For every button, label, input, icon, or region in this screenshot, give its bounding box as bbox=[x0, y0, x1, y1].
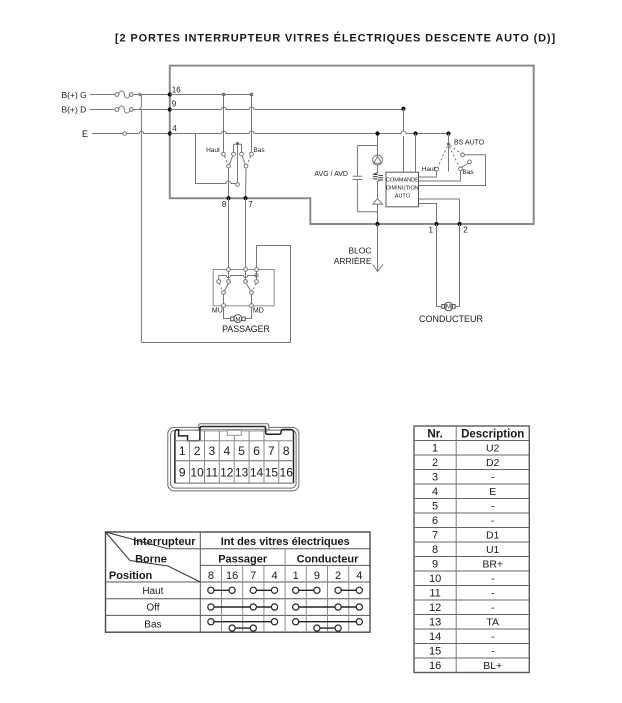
svg-text:Passager: Passager bbox=[218, 553, 268, 565]
svg-text:7: 7 bbox=[432, 530, 438, 542]
svg-text:-: - bbox=[491, 515, 495, 527]
passenger switch contact circles bbox=[222, 152, 254, 168]
switch table row border Off/Bas bbox=[106, 614, 371, 616]
wire Bas fixed drop bbox=[251, 95, 253, 153]
svg-text:Interrupteur: Interrupteur bbox=[133, 536, 196, 548]
svg-text:9: 9 bbox=[172, 100, 177, 109]
pole terminal circle bbox=[236, 183, 240, 187]
passenger switch pole bbox=[237, 145, 239, 182]
svg-text:16: 16 bbox=[429, 660, 441, 672]
passenger motor M bbox=[231, 315, 246, 323]
svg-text:Bas: Bas bbox=[253, 147, 265, 154]
wire B(+)D to breaker bbox=[90, 109, 116, 111]
svg-text:MU: MU bbox=[212, 307, 223, 314]
BS AUTO pivot bbox=[447, 143, 450, 146]
svg-text:5: 5 bbox=[238, 444, 245, 458]
svg-text:[2 PORTES INTERRUPTEUR VITRES: [2 PORTES INTERRUPTEUR VITRES ÉLECTRIQUE… bbox=[115, 32, 556, 45]
svg-text:2: 2 bbox=[432, 457, 438, 469]
svg-text:9: 9 bbox=[314, 570, 320, 582]
svg-text:AUTO: AUTO bbox=[395, 194, 411, 200]
svg-text:B(+) G: B(+) G bbox=[62, 90, 87, 100]
passenger switch dashed link right bbox=[247, 156, 250, 164]
svg-text:14: 14 bbox=[250, 465, 264, 479]
switch table row border A bbox=[168, 548, 370, 550]
svg-text:M: M bbox=[235, 317, 240, 323]
svg-text:15: 15 bbox=[265, 465, 279, 479]
MD terminal circle bbox=[250, 304, 254, 308]
switch table column lines bbox=[222, 549, 349, 632]
circuit breaker CB2 (B+D) bbox=[115, 106, 133, 113]
svg-text:16: 16 bbox=[280, 465, 294, 479]
svg-text:MD: MD bbox=[253, 307, 264, 314]
node commande E junction bbox=[413, 131, 417, 135]
wire Haut fixed drop bbox=[223, 95, 225, 153]
connector keyed top contour bbox=[175, 427, 294, 484]
svg-text:Bas: Bas bbox=[462, 169, 474, 176]
wire commande out 1 bbox=[419, 204, 437, 225]
header diagonal 1 bbox=[106, 532, 169, 549]
svg-text:3: 3 bbox=[432, 472, 438, 484]
svg-text:U1: U1 bbox=[486, 544, 500, 556]
connector tab inner lines bbox=[200, 429, 268, 431]
node pin1 dot bbox=[434, 222, 438, 226]
switch assembly box outline bbox=[170, 66, 534, 224]
passenger switch dashed link left bbox=[225, 156, 228, 164]
node rail dot Bas drop bbox=[250, 93, 254, 97]
wire t3 down bbox=[256, 271, 258, 280]
svg-text:Nr.: Nr. bbox=[427, 428, 442, 440]
switch table row border C bbox=[106, 581, 371, 583]
svg-text:BS AUTO: BS AUTO bbox=[454, 140, 485, 147]
svg-text:16: 16 bbox=[226, 570, 238, 582]
svg-text:8: 8 bbox=[283, 444, 290, 458]
connector grid bottom bbox=[175, 482, 294, 484]
wire pin9 drop to commande box with hop over pin4 rail bbox=[403, 109, 405, 173]
switch table outer border bbox=[106, 532, 371, 632]
nr table numbers bbox=[429, 443, 441, 673]
BS AUTO solid arm Bas bbox=[461, 163, 468, 167]
off row contact bridges bbox=[208, 604, 363, 610]
bus junction circle bbox=[255, 274, 258, 277]
svg-text:6: 6 bbox=[253, 444, 260, 458]
svg-text:DIMINUTION: DIMINUTION bbox=[386, 186, 419, 192]
diode symbol bbox=[373, 199, 383, 205]
block moving contact circles bbox=[222, 291, 254, 295]
wire Haut contact to commande bbox=[419, 171, 437, 177]
node junction B+ tie (grey dot) bbox=[138, 93, 142, 97]
svg-text:8: 8 bbox=[222, 200, 227, 209]
svg-text:Haut: Haut bbox=[142, 586, 163, 597]
svg-text:Borne: Borne bbox=[135, 553, 167, 565]
wire MD to motor bbox=[245, 308, 251, 319]
BS AUTO contact circles bbox=[435, 153, 472, 171]
svg-text:D1: D1 bbox=[486, 530, 500, 542]
connector pin numbers row 1 bbox=[179, 444, 290, 458]
connector terminal circle on E bbox=[123, 132, 127, 136]
ground bus inside block with hops bbox=[219, 276, 257, 280]
node BS AUTO junction on pin4 rail bbox=[446, 131, 450, 135]
BS AUTO frame to commande bbox=[419, 155, 486, 186]
wire Bas contact to commande bbox=[419, 171, 461, 181]
svg-text:16: 16 bbox=[172, 86, 181, 95]
svg-text:BL+: BL+ bbox=[483, 660, 502, 672]
connector latch slot bbox=[227, 430, 241, 435]
svg-text:BLOC: BLOC bbox=[348, 246, 371, 256]
nr table row lines bbox=[414, 441, 529, 659]
node pin2 dot bbox=[457, 222, 461, 226]
wire pin8 down to passenger motor bbox=[228, 198, 230, 269]
svg-text:8: 8 bbox=[208, 570, 214, 582]
svg-text:2: 2 bbox=[335, 570, 341, 582]
svg-text:7: 7 bbox=[268, 444, 275, 458]
wire zigzag to diode bbox=[377, 182, 379, 199]
wire B+ vertical merge into B(+)D line bbox=[137, 95, 141, 110]
svg-text:AVG / AVD: AVG / AVD bbox=[314, 171, 348, 178]
svg-text:B(+) D: B(+) D bbox=[62, 105, 87, 115]
wire breaker to pin9 bbox=[133, 109, 170, 111]
wire pin7 down to passenger motor bbox=[245, 198, 247, 269]
svg-text:M: M bbox=[446, 305, 451, 311]
wire commande out 2 bbox=[419, 199, 460, 224]
wire pin16 rail bbox=[170, 94, 252, 96]
connector grid top line bbox=[175, 440, 294, 442]
MU terminal circle bbox=[222, 304, 226, 308]
node AVG junction on pin4 rail bbox=[375, 131, 379, 135]
BS AUTO dashed arm to lower Bas bbox=[449, 147, 459, 167]
svg-text:TA: TA bbox=[486, 617, 499, 629]
wire moving right to MD bbox=[251, 294, 253, 303]
passenger switch T-bar and legs bbox=[234, 144, 242, 152]
svg-text:6: 6 bbox=[432, 515, 438, 527]
wire bloc arriere drop bbox=[377, 224, 379, 271]
wire E lead bbox=[92, 133, 123, 135]
switch table row border Haut/Off bbox=[106, 598, 371, 600]
svg-text:12: 12 bbox=[429, 602, 441, 614]
passenger switch pivot bbox=[236, 142, 239, 145]
connector tab cell dividers bbox=[205, 431, 265, 441]
header diagonal 2 bbox=[106, 532, 201, 582]
svg-text:E: E bbox=[82, 129, 88, 139]
AVG parallel capacitor branch bbox=[356, 146, 358, 212]
svg-text:-: - bbox=[491, 501, 495, 513]
svg-text:-: - bbox=[491, 631, 495, 643]
svg-text:11: 11 bbox=[206, 465, 219, 479]
svg-text:10: 10 bbox=[190, 465, 204, 479]
svg-text:-: - bbox=[491, 646, 495, 658]
wire t2 down bbox=[245, 271, 247, 280]
svg-text:-: - bbox=[491, 472, 495, 484]
node pin8 dot bbox=[226, 196, 230, 200]
BS AUTO dashed arm to upper Bas bbox=[450, 145, 461, 153]
svg-text:9: 9 bbox=[432, 559, 438, 571]
wire pin9 rail with hops bbox=[170, 107, 404, 110]
node pin4 dot bbox=[168, 131, 172, 135]
block arm left bbox=[225, 284, 229, 291]
svg-text:5: 5 bbox=[432, 501, 438, 513]
svg-text:7: 7 bbox=[248, 200, 253, 209]
BS AUTO pole bbox=[448, 146, 450, 172]
svg-text:13: 13 bbox=[429, 617, 441, 629]
block fixed contact circles bbox=[217, 280, 259, 284]
commande diminution auto box U1 bbox=[386, 172, 419, 207]
passenger switch arm left bbox=[230, 156, 233, 165]
wire pin2 to conducteur motor bbox=[455, 224, 459, 307]
haut row contact bridges bbox=[208, 587, 363, 593]
svg-text:4: 4 bbox=[271, 570, 277, 582]
svg-text:COMMANDE: COMMANDE bbox=[386, 178, 419, 184]
wire diode to bottom rail bbox=[377, 204, 379, 224]
thermal protector circle with triangle bbox=[373, 155, 383, 165]
block arm right bbox=[247, 284, 251, 291]
wire E drop to commande box bbox=[415, 134, 417, 173]
svg-text:13: 13 bbox=[235, 465, 249, 479]
node pin7 dot bbox=[243, 196, 247, 200]
zigzag element bbox=[373, 173, 383, 182]
node rail dot Haut drop bbox=[222, 93, 226, 97]
wire E to pin4 with hop over B+ vertical bbox=[127, 131, 170, 133]
svg-text:7: 7 bbox=[250, 570, 256, 582]
connector grid row divider bbox=[175, 460, 294, 462]
node pin9 end dot bbox=[401, 107, 405, 111]
wire B+ feed down left side bbox=[140, 110, 142, 343]
svg-text:8: 8 bbox=[432, 544, 438, 556]
BS AUTO dashed arm to Haut bbox=[438, 146, 448, 167]
connector tab outer bbox=[199, 424, 269, 431]
svg-text:11: 11 bbox=[429, 588, 440, 600]
svg-text:15: 15 bbox=[429, 646, 441, 658]
block dashed link left bbox=[220, 284, 223, 291]
svg-text:Haut: Haut bbox=[206, 147, 220, 154]
block dashed link right bbox=[253, 284, 256, 291]
svg-text:D2: D2 bbox=[486, 457, 500, 469]
wire moving contact left to pin8 bbox=[228, 168, 230, 198]
node AVG bottom dot bbox=[375, 222, 379, 226]
commande text bbox=[386, 178, 419, 200]
node pin9 dot bbox=[168, 107, 172, 111]
passenger motor block outline bbox=[213, 270, 274, 306]
wire between circle and zigzag bbox=[377, 165, 379, 173]
svg-text:4: 4 bbox=[356, 570, 362, 582]
svg-text:CONDUCTEUR: CONDUCTEUR bbox=[419, 314, 483, 324]
svg-text:2: 2 bbox=[194, 444, 201, 458]
circuit breaker CB1 (B+G) bbox=[115, 91, 133, 98]
node pin16 dot bbox=[168, 92, 172, 96]
wire pin4 rail with hops bbox=[170, 131, 449, 134]
passenger switch arm right bbox=[242, 156, 245, 165]
svg-text:-: - bbox=[491, 573, 495, 585]
svg-text:BR+: BR+ bbox=[482, 559, 503, 571]
wire pin4 to BS pivot bbox=[448, 134, 450, 143]
svg-text:Haut: Haut bbox=[422, 166, 436, 173]
wire AVG branch vertical top bbox=[377, 134, 379, 156]
svg-text:-: - bbox=[491, 588, 495, 600]
wire E feed to pole with hop bbox=[196, 134, 236, 184]
svg-text:1: 1 bbox=[293, 570, 299, 582]
svg-text:10: 10 bbox=[429, 573, 441, 585]
svg-text:E: E bbox=[489, 486, 496, 498]
capacitor plates bbox=[353, 176, 362, 179]
connector shell outer bbox=[168, 427, 299, 491]
wire pin1 to conducteur motor bbox=[437, 224, 442, 307]
wire t1 down bbox=[228, 271, 230, 280]
svg-text:1: 1 bbox=[432, 443, 438, 455]
nr table outer border bbox=[414, 426, 529, 673]
svg-text:ARRIÈRE: ARRIÈRE bbox=[334, 256, 372, 266]
svg-text:2: 2 bbox=[463, 225, 468, 234]
AVG branch connectors bbox=[357, 146, 377, 212]
switch table row border B bbox=[200, 564, 370, 566]
svg-text:Off: Off bbox=[146, 603, 159, 614]
connector shell inner bbox=[171, 430, 297, 488]
borne numbers bbox=[208, 570, 363, 582]
svg-text:Bas: Bas bbox=[144, 619, 161, 630]
svg-text:Position: Position bbox=[109, 570, 153, 582]
wire moving left to MU bbox=[223, 294, 225, 303]
wire B(+)G to breaker bbox=[90, 94, 116, 96]
svg-text:Int des vitres électriques: Int des vitres électriques bbox=[221, 536, 350, 548]
bas row contact bridges bbox=[208, 619, 363, 632]
bloc arriere arrowhead bbox=[373, 265, 383, 272]
svg-text:1: 1 bbox=[429, 225, 434, 234]
nr table descriptions bbox=[482, 443, 503, 673]
svg-text:1: 1 bbox=[179, 444, 186, 458]
svg-text:4: 4 bbox=[432, 486, 438, 498]
connector pin numbers row 2 bbox=[179, 465, 293, 479]
svg-text:9: 9 bbox=[179, 465, 186, 479]
wire moving contact right to pin7 bbox=[245, 168, 248, 198]
svg-text:-: - bbox=[491, 602, 495, 614]
svg-text:14: 14 bbox=[429, 631, 441, 643]
wire MU to motor bbox=[224, 308, 231, 319]
svg-text:12: 12 bbox=[220, 465, 234, 479]
conducteur motor M bbox=[442, 302, 455, 310]
passenger block terminal circles bbox=[227, 268, 259, 272]
wire ground return bottom bbox=[141, 246, 290, 343]
svg-text:U2: U2 bbox=[486, 443, 500, 455]
svg-text:3: 3 bbox=[209, 444, 216, 458]
svg-text:Description: Description bbox=[461, 428, 524, 440]
wire breaker to pin16 bbox=[133, 94, 170, 96]
svg-text:4: 4 bbox=[223, 444, 230, 458]
connector grid column dividers bbox=[190, 441, 279, 483]
nr table column divider bbox=[455, 426, 457, 673]
svg-text:4: 4 bbox=[172, 124, 177, 133]
svg-text:PASSAGER: PASSAGER bbox=[222, 324, 270, 334]
switch table header column divider bbox=[199, 532, 201, 632]
svg-text:Conducteur: Conducteur bbox=[297, 553, 359, 565]
